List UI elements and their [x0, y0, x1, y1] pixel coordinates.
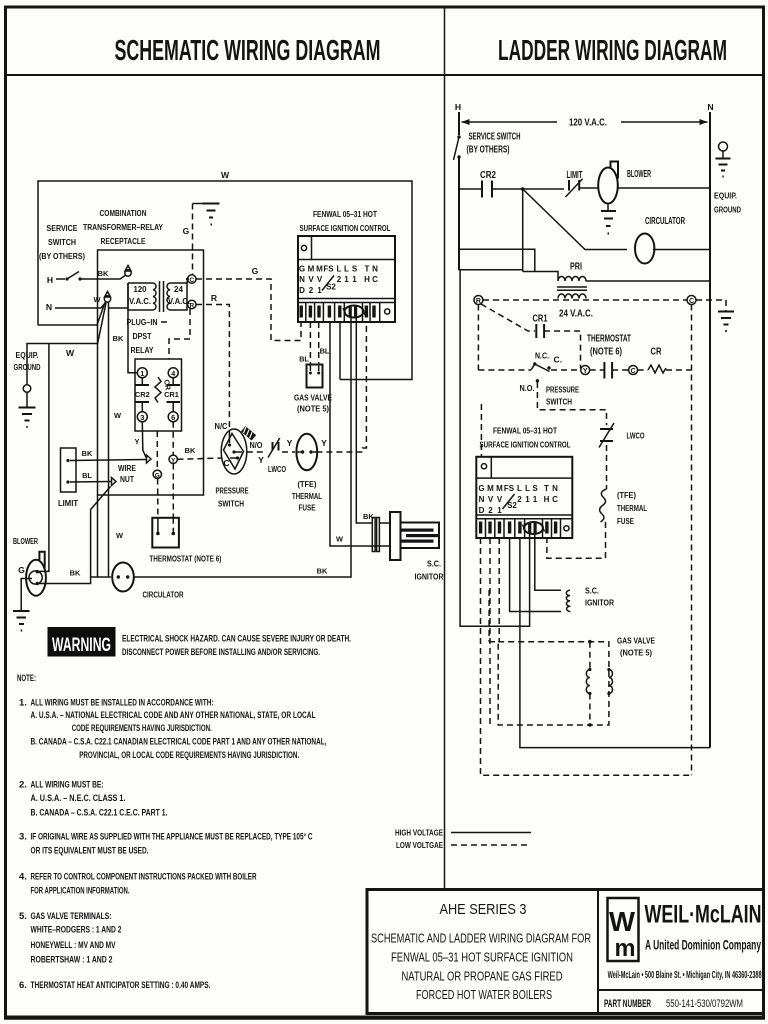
- wire nut arrow lower: [112, 478, 117, 486]
- wire BK circulator to SC ignitor junction: [135, 546, 352, 577]
- SC ignitor coil: [566, 590, 570, 611]
- svg-text:24: 24: [174, 285, 184, 294]
- svg-text:R: R: [211, 293, 218, 303]
- svg-text:L: L: [337, 265, 342, 274]
- wire dashed PS to LWCO: [247, 451, 266, 453]
- svg-text:CODE REQUIREMENTS HAVING JURIS: CODE REQUIREMENTS HAVING JURISDICTION.: [72, 723, 212, 734]
- svg-text:G: G: [299, 265, 305, 274]
- wire BK blower bottom: [39, 577, 111, 584]
- S2 slash ladder: [503, 494, 515, 509]
- svg-text:N.C.: N.C.: [535, 351, 549, 361]
- svg-text:N: N: [372, 265, 378, 274]
- receptacle box: [98, 250, 204, 495]
- LWCO switch: [272, 442, 274, 451]
- svg-text:1: 1: [525, 495, 530, 504]
- svg-text:N/C: N/C: [215, 421, 228, 431]
- wire dashed C down: [691, 305, 693, 776]
- svg-text:2: 2: [309, 286, 314, 295]
- contact CR1: [172, 378, 174, 385]
- bottom border thick: [4, 1018, 765, 1020]
- svg-text:L: L: [344, 265, 349, 274]
- svg-text:A. U.S.A. – N.E.C. CLASS 1.: A. U.S.A. – N.E.C. CLASS 1.: [31, 793, 126, 804]
- wire dashed 24 stub: [161, 321, 171, 323]
- plug symbol on 120V: [125, 270, 131, 276]
- svg-text:ALL WIRING MUST BE INSTALLED I: ALL WIRING MUST BE INSTALLED IN ACCORDAN…: [31, 698, 214, 709]
- svg-text:FOR APPLICATION INFORMATION.: FOR APPLICATION INFORMATION.: [31, 886, 130, 897]
- thermal fuse TFE: [296, 434, 317, 470]
- wire down to blower: [39, 344, 49, 572]
- svg-text:3: 3: [140, 413, 144, 422]
- svg-text:OR ITS EQUIVALENT MUST BE USED: OR ITS EQUIVALENT MUST BE USED.: [31, 845, 149, 856]
- ground symbol top: [193, 203, 212, 205]
- svg-text:BL: BL: [320, 347, 330, 356]
- wire BL limit to nut: [70, 481, 111, 484]
- svg-text:S.C.: S.C.: [427, 559, 441, 569]
- svg-text:H: H: [544, 495, 550, 504]
- svg-text:GAS VALVE: GAS VALVE: [617, 636, 655, 646]
- svg-text:SWITCH: SWITCH: [218, 499, 244, 509]
- svg-text:120 V.A.C.: 120 V.A.C.: [569, 118, 607, 129]
- svg-text:SWITCH: SWITCH: [48, 237, 76, 247]
- svg-text:CR1: CR1: [533, 314, 548, 325]
- wire S2 left ladder: [520, 534, 530, 626]
- wire W down to circulator: [108, 303, 110, 578]
- svg-text:S.C.: S.C.: [585, 586, 599, 596]
- svg-text:D: D: [479, 506, 485, 515]
- svg-text:W: W: [336, 535, 343, 544]
- svg-text:FORCED HOT WATER BOILERS: FORCED HOT WATER BOILERS: [416, 988, 552, 1002]
- svg-text:W: W: [221, 170, 230, 180]
- svg-text:M: M: [316, 265, 323, 274]
- svg-text:COMBINATION: COMBINATION: [100, 208, 147, 218]
- wire dashed R from R to pressure switch: [196, 305, 229, 431]
- vertical page divider: [444, 7, 446, 888]
- svg-text:PRI: PRI: [570, 262, 582, 273]
- svg-text:(NOTE 5): (NOTE 5): [297, 404, 329, 414]
- svg-text:Y: Y: [258, 455, 264, 465]
- wire rail branch to PRI: [459, 249, 535, 271]
- fenwal terminal labels ladder: [478, 484, 558, 515]
- svg-text:G: G: [18, 565, 25, 575]
- gas valve: [307, 365, 323, 388]
- svg-text:SCHEMATIC WIRING DIAGRAM: SCHEMATIC WIRING DIAGRAM: [115, 35, 381, 67]
- wire dashed MV2 to gas valve: [309, 322, 311, 364]
- relay pin 4: [168, 368, 178, 378]
- svg-text:SWITCH: SWITCH: [546, 397, 572, 407]
- terminal C thermostat ladder: [629, 366, 638, 375]
- wire dashed G to thermostat: [157, 479, 159, 519]
- contact CR2: [141, 378, 143, 385]
- wire FS down: [330, 322, 351, 546]
- wire to C terminal: [187, 279, 188, 283]
- svg-text:V: V: [488, 495, 494, 504]
- svg-text:BK: BK: [113, 334, 124, 343]
- svg-text:PROVINCIAL, OR LOCAL CODE REQU: PROVINCIAL, OR LOCAL CODE REQUIREMENTS H…: [79, 750, 299, 761]
- svg-text:(BY OTHERS): (BY OTHERS): [39, 251, 85, 261]
- svg-text:FENWAL 05–31 HOT: FENWAL 05–31 HOT: [493, 426, 558, 436]
- svg-text:120: 120: [134, 285, 148, 294]
- svg-text:A. U.S.A. – NATIONAL ELECTRICA: A. U.S.A. – NATIONAL ELECTRICAL CODE AND…: [31, 710, 316, 721]
- wire L2 to neutral: [520, 538, 710, 748]
- thermostat: [152, 518, 179, 548]
- ignitor plug oval ladder: [523, 522, 545, 534]
- svg-text:FENWAL 05–31 HOT: FENWAL 05–31 HOT: [313, 209, 378, 219]
- transformer 24 VAC box: [170, 283, 187, 310]
- svg-text:ELECTRICAL SHOCK HAZARD. CAN: ELECTRICAL SHOCK HAZARD. CAN CAUSE SEVER…: [122, 634, 351, 645]
- svg-text:1: 1: [344, 275, 349, 284]
- svg-text:N: N: [299, 275, 305, 284]
- wire rail ext down: [460, 270, 520, 626]
- svg-text:FUSE: FUSE: [299, 503, 316, 513]
- svg-text:LWCO: LWCO: [268, 464, 286, 474]
- svg-text:Y: Y: [287, 438, 293, 448]
- wire S2 left: [350, 317, 352, 546]
- S2 slash: [322, 276, 334, 291]
- ignitor plug oval: [343, 306, 365, 318]
- svg-text:EQUIP.: EQUIP.: [714, 191, 737, 201]
- svg-text:BL: BL: [82, 471, 92, 480]
- svg-text:6.: 6.: [19, 980, 27, 991]
- svg-text:(NOTE 6): (NOTE 6): [590, 347, 622, 358]
- svg-text:W: W: [66, 348, 75, 358]
- svg-text:(TFE): (TFE): [617, 490, 636, 500]
- svg-text:(TFE): (TFE): [298, 479, 317, 489]
- relay pin 6: [168, 412, 178, 422]
- svg-text:B. CANADA – C.S.A. C22.1 C.E.C: B. CANADA – C.S.A. C22.1 C.E.C. PART 1.: [31, 808, 168, 819]
- svg-text:IGNITOR: IGNITOR: [415, 572, 445, 582]
- svg-text:B. CANADA – C.S.A. C22.1 CANAD: B. CANADA – C.S.A. C22.1 CANADIAN ELECTR…: [31, 737, 327, 748]
- svg-text:NATURAL OR PROPANE GAS FIRED: NATURAL OR PROPANE GAS FIRED: [402, 969, 563, 983]
- svg-text:N: N: [552, 484, 558, 493]
- svg-text:SURFACE IGNITION CONTROL: SURFACE IGNITION CONTROL: [480, 440, 571, 450]
- gas valve solenoid left: [586, 640, 591, 727]
- svg-text:W: W: [114, 411, 121, 420]
- svg-text:LADDER WIRING DIAGRAM: LADDER WIRING DIAGRAM: [498, 35, 727, 67]
- wire fan-out diagonal to box corner: [97, 303, 105, 326]
- wire dashed LWCO to fuse: [282, 451, 295, 453]
- svg-text:FS: FS: [504, 484, 515, 493]
- terminal Y ladder: [581, 366, 590, 375]
- warning box: [48, 627, 116, 657]
- svg-text:L: L: [525, 484, 530, 493]
- svg-text:BK: BK: [317, 567, 328, 576]
- wire dashed CR1 to thermostat rung: [544, 331, 580, 368]
- svg-text:V.A.C.: V.A.C.: [168, 297, 190, 306]
- wire S2 right: [356, 317, 372, 523]
- wire rail bottom to PRI: [459, 269, 523, 271]
- svg-text:Y: Y: [583, 368, 588, 375]
- svg-text:R: R: [476, 298, 481, 305]
- svg-text:GAS VALVE: GAS VALVE: [294, 393, 332, 403]
- svg-text:ALL WIRING MUST BE:: ALL WIRING MUST BE:: [31, 779, 104, 790]
- equip ground right: [719, 142, 728, 151]
- svg-text:IF ORIGINAL WIRE AS SUPPLIED W: IF ORIGINAL WIRE AS SUPPLIED WITH THE AP…: [31, 831, 313, 842]
- wire dashed C to ground: [696, 300, 726, 311]
- svg-text:LOW VOLTGAE: LOW VOLTGAE: [396, 840, 443, 850]
- svg-text:A United Dominion Company: A United Dominion Company: [645, 937, 761, 952]
- svg-text:C: C: [189, 277, 194, 284]
- transformer core: [159, 281, 161, 312]
- svg-text:2: 2: [517, 495, 522, 504]
- svg-text:TRANSFORMER–RELAY: TRANSFORMER–RELAY: [83, 222, 163, 232]
- wire nut junction node: [104, 296, 110, 302]
- transformer T1 120 VAC primary box: [128, 282, 153, 284]
- svg-text:DISCONNECT POWER BEFORE INSTAL: DISCONNECT POWER BEFORE INSTALLING AND/O…: [122, 647, 320, 658]
- wire Y relay pin3 to wire nut: [142, 422, 146, 458]
- svg-text:BLOWER: BLOWER: [627, 169, 651, 180]
- svg-text:BK: BK: [70, 569, 81, 578]
- switch H blade: [56, 278, 65, 280]
- wire dashed MV2 down: [489, 538, 491, 725]
- svg-text:S: S: [352, 265, 358, 274]
- svg-text:G: G: [155, 472, 160, 479]
- svg-text:1: 1: [533, 495, 538, 504]
- svg-text:V.A.C.: V.A.C.: [129, 297, 151, 306]
- limit control: [61, 448, 77, 492]
- weil mclain logo: [608, 898, 639, 961]
- dimension 120 VAC: [462, 118, 708, 129]
- wire box bottom-left stub: [38, 324, 97, 326]
- title separator line: [5, 74, 764, 76]
- svg-text:2: 2: [337, 275, 342, 284]
- svg-text:C: C: [689, 298, 694, 305]
- svg-text:WHITE–RODGERS : 1 AND 2: WHITE–RODGERS : 1 AND 2: [31, 925, 122, 936]
- terminal C ladder: [687, 296, 696, 305]
- svg-text:M: M: [487, 484, 494, 493]
- wire L2 to neutral: [339, 322, 341, 380]
- wire N to wire nut: [55, 302, 106, 308]
- title block box: [367, 890, 764, 1014]
- svg-text:LIMIT: LIMIT: [567, 170, 583, 181]
- svg-text:1: 1: [352, 275, 357, 284]
- svg-text:M: M: [308, 265, 315, 274]
- svg-text:S: S: [532, 484, 538, 493]
- svg-text:PART NUMBER: PART NUMBER: [604, 998, 651, 1010]
- svg-text:D: D: [299, 286, 305, 295]
- relay pin 1: [137, 368, 147, 378]
- wire S2 right ladder: [535, 534, 561, 590]
- svg-text:HONEYWELL : MV AND MV: HONEYWELL : MV AND MV: [31, 940, 116, 951]
- svg-text:NUT: NUT: [120, 474, 135, 484]
- ground symbol C: [718, 311, 734, 313]
- svg-text:3.: 3.: [19, 831, 27, 842]
- svg-text:C: C: [372, 275, 378, 284]
- svg-text:M: M: [496, 484, 503, 493]
- svg-text:N/O: N/O: [250, 440, 263, 450]
- svg-text:CR: CR: [651, 347, 662, 358]
- wire dashed GND bottom loop: [481, 538, 692, 775]
- svg-text:W: W: [609, 906, 636, 937]
- wire dashed NO to LWCO: [537, 382, 606, 425]
- svg-text:6: 6: [171, 413, 175, 422]
- svg-text:24 V.A.C.: 24 V.A.C.: [559, 309, 593, 320]
- wire dashed 24V bus: [483, 299, 687, 301]
- svg-text:REFER TO CONTROL COMPONENT INS: REFER TO CONTROL COMPONENT INSTRUCTIONS …: [31, 871, 257, 882]
- svg-text:CIRCULATOR: CIRCULATOR: [143, 590, 185, 600]
- svg-text:THERMAL: THERMAL: [292, 491, 322, 501]
- pressure switch PS1: [221, 426, 256, 474]
- svg-text:H: H: [364, 275, 370, 284]
- wire dashed R to relay coil: [169, 309, 190, 359]
- gas valve solenoid right: [607, 668, 612, 695]
- wire BL diagonal down: [91, 487, 111, 578]
- rail H: [458, 112, 460, 135]
- receptacle terminal Y: [169, 455, 177, 463]
- svg-text:W: W: [116, 531, 123, 540]
- svg-text:WEIL·McLAIN: WEIL·McLAIN: [645, 901, 762, 929]
- svg-text:(BY OTHERS): (BY OTHERS): [467, 145, 510, 156]
- svg-text:H: H: [455, 102, 461, 112]
- coil CR zigzag: [155, 377, 161, 403]
- svg-text:GAS VALVE TERMINALS:: GAS VALVE TERMINALS:: [31, 911, 112, 922]
- wire diagonal to circulator rung: [523, 189, 627, 250]
- svg-text:THERMOSTAT (NOTE 6): THERMOSTAT (NOTE 6): [149, 554, 221, 564]
- svg-text:1: 1: [497, 506, 502, 515]
- svg-text:GROUND: GROUND: [714, 205, 741, 215]
- wire G blower to ground: [21, 579, 32, 611]
- svg-text:V: V: [497, 495, 503, 504]
- wire FS to ignitor: [510, 538, 561, 612]
- svg-text:CR2: CR2: [135, 390, 150, 399]
- wire dashed R down: [477, 305, 479, 371]
- svg-text:C: C: [223, 458, 229, 468]
- svg-text:m: m: [615, 935, 636, 962]
- wire dashed LWCO to TFE: [606, 445, 608, 489]
- svg-text:CR1: CR1: [164, 390, 179, 399]
- svg-text:H: H: [47, 275, 53, 285]
- svg-text:BL: BL: [299, 355, 309, 364]
- svg-text:550-141-530/0792WM: 550-141-530/0792WM: [666, 998, 743, 1010]
- blower ground symbol: [13, 610, 30, 612]
- svg-text:BK: BK: [185, 446, 196, 455]
- svg-text:G: G: [478, 484, 484, 493]
- svg-text:DPST: DPST: [133, 331, 153, 341]
- fenwal terminal labels: [299, 265, 378, 296]
- wire W boiler box outline top/right: [38, 181, 412, 380]
- svg-text:C: C: [631, 368, 636, 375]
- svg-text:Y: Y: [321, 438, 327, 448]
- wire dashed R above fenwal: [480, 404, 482, 457]
- svg-text:N: N: [479, 495, 485, 504]
- svg-text:IGNITOR: IGNITOR: [585, 598, 615, 608]
- svg-text:(NOTE 5): (NOTE 5): [620, 648, 652, 658]
- svg-text:Y: Y: [135, 437, 140, 446]
- svg-text:BLOWER: BLOWER: [13, 536, 39, 546]
- wire dashed Y to thermostat: [172, 464, 174, 519]
- svg-text:CR2: CR2: [480, 170, 496, 181]
- wire dashed PS common to Y: [551, 369, 581, 371]
- fenwal terminal strip: [298, 298, 395, 300]
- SC ignitor assembly: [351, 512, 439, 560]
- wire dashed G from C to GND terminal: [196, 279, 301, 341]
- svg-text:L: L: [517, 484, 522, 493]
- circulator: [112, 563, 134, 592]
- svg-text:AHE SERIES 3: AHE SERIES 3: [440, 901, 527, 918]
- svg-text:2: 2: [488, 506, 493, 515]
- svg-text:CIRCULATOR: CIRCULATOR: [645, 216, 685, 227]
- wire N continue to transformer: [108, 307, 128, 309]
- wire receptacle corner down: [97, 495, 99, 577]
- svg-text:LIMIT: LIMIT: [58, 498, 79, 508]
- svg-text:SURFACE IGNITION CONTROL: SURFACE IGNITION CONTROL: [300, 223, 391, 233]
- svg-text:R: R: [189, 303, 194, 310]
- svg-text:RECEPTACLE: RECEPTACLE: [101, 236, 146, 246]
- svg-text:C: C: [552, 495, 558, 504]
- terminal R: [188, 300, 196, 308]
- svg-text:2.: 2.: [19, 779, 27, 790]
- service switch ladder: [457, 135, 460, 138]
- secondary winding 24V: [167, 283, 170, 310]
- fenwal terminal strip ladder: [476, 514, 572, 516]
- svg-text:NOTE:: NOTE:: [17, 673, 36, 684]
- wire fan-out diagonal to ground wire: [98, 303, 107, 344]
- svg-text:1: 1: [317, 286, 322, 295]
- receptacle terminal G: [153, 470, 161, 478]
- svg-text:T: T: [544, 484, 549, 493]
- svg-text:Weil-McLain • 500 Blaine St. •: Weil-McLain • 500 Blaine St. • Michigan …: [608, 970, 762, 981]
- svg-text:WARNING: WARNING: [52, 635, 111, 656]
- wire dashed R diagonal to CR1: [481, 304, 535, 331]
- notes text: [17, 673, 327, 991]
- wire dashed G ground to C: [192, 204, 194, 275]
- svg-text:C.: C.: [554, 355, 563, 365]
- svg-text:N: N: [707, 102, 713, 112]
- svg-text:N: N: [46, 302, 52, 312]
- wire equip ground to receptacle: [27, 344, 98, 385]
- svg-text:PLUG–IN: PLUG–IN: [127, 317, 158, 327]
- part number row: [598, 989, 764, 991]
- blower ground: [607, 204, 609, 211]
- wire junction down to PRI: [522, 189, 524, 272]
- svg-text:G: G: [183, 226, 190, 236]
- svg-text:G: G: [252, 266, 259, 276]
- svg-text:Y: Y: [171, 457, 176, 464]
- terminal R ladder: [474, 296, 483, 305]
- junction dot: [521, 187, 525, 191]
- svg-text:PRESSURE: PRESSURE: [546, 385, 579, 395]
- svg-text:RELAY: RELAY: [131, 345, 154, 355]
- wire dashed pin6 to Y: [172, 422, 174, 455]
- svg-text:FS: FS: [323, 265, 334, 274]
- svg-text:SERVICE: SERVICE: [47, 223, 78, 233]
- svg-text:N.O.: N.O.: [520, 383, 535, 393]
- primary winding: [153, 283, 156, 310]
- svg-text:BK: BK: [82, 449, 93, 458]
- wire nut arrow upper: [147, 455, 152, 463]
- svg-text:THERMAL: THERMAL: [617, 503, 647, 513]
- svg-text:1.: 1.: [19, 698, 27, 709]
- svg-text:5.: 5.: [19, 911, 27, 922]
- svg-text:THERMOSTAT HEAT ANTICIPATOR SE: THERMOSTAT HEAT ANTICIPATOR SETTING : 0.…: [31, 980, 211, 991]
- relay pin 3: [137, 412, 147, 422]
- gas valve dashed box: [489, 590, 609, 725]
- terminal C: [188, 275, 196, 283]
- transformer secondary 24V: [558, 294, 586, 299]
- svg-text:T: T: [365, 265, 370, 274]
- svg-text:WIRE: WIRE: [118, 463, 136, 473]
- rung thermostat dashed: [478, 369, 531, 371]
- svg-text:FUSE: FUSE: [617, 516, 634, 526]
- svg-text:SCHEMATIC AND LADDER WIRING DI: SCHEMATIC AND LADDER WIRING DIAGRAM FOR: [371, 932, 591, 946]
- svg-text:SERVICE SWITCH: SERVICE SWITCH: [469, 132, 521, 143]
- wire BK limit to nut: [70, 460, 146, 461]
- wire BK from switch to plug: [81, 275, 126, 279]
- wire dashed TFE to TH terminal: [547, 522, 606, 558]
- wire dashed coil to G: [156, 431, 158, 470]
- svg-text:LWCO: LWCO: [627, 431, 645, 441]
- svg-text:FENWAL 05–31 HOT SURFACE IGNIT: FENWAL 05–31 HOT SURFACE IGNITION: [391, 950, 573, 964]
- wire BK plug down to relay pin1: [128, 283, 137, 373]
